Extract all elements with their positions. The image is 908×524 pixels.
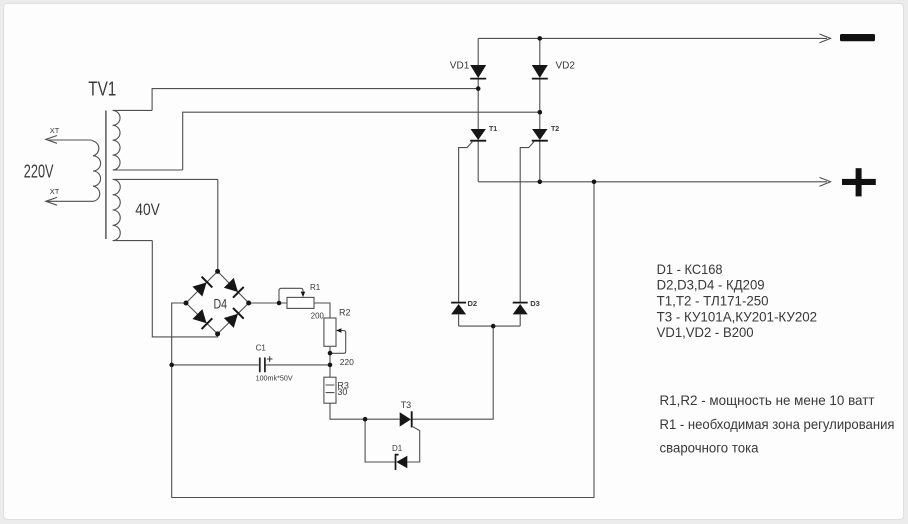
- resistor R3 body: [324, 377, 336, 403]
- resistor R1 body: [287, 297, 314, 308]
- bridge rectifier D4 outline: [186, 271, 249, 334]
- primary winding arrow bottom: [46, 197, 57, 205]
- wire minus rail: [478, 37, 827, 39]
- plus terminal symbol: [842, 168, 876, 196]
- diode VD2: [532, 65, 548, 79]
- svg-text:Т1,Т2 - ТЛ171-250: Т1,Т2 - ТЛ171-250: [657, 293, 769, 309]
- svg-text:100mk*50V: 100mk*50V: [256, 373, 294, 382]
- minus output arrowhead: [820, 34, 831, 43]
- svg-text:C1: C1: [256, 344, 267, 353]
- wire C1 rail left: [172, 364, 259, 366]
- svg-text:сварочного тока: сварочного тока: [660, 440, 759, 456]
- svg-text:XT: XT: [50, 187, 60, 196]
- wire bridge right to R1: [249, 302, 287, 304]
- resistor R2 wiper arrow: [330, 331, 346, 354]
- thyristor T2: [532, 129, 548, 141]
- svg-text:Т3 - КУ101А,КУ201-КУ202: Т3 - КУ101А,КУ201-КУ202: [657, 308, 818, 324]
- svg-text:R2: R2: [339, 308, 351, 318]
- wire T3 cathode to D2 D3 junction: [412, 326, 494, 419]
- diode D2: [451, 303, 466, 315]
- wire T2 gate to D3: [520, 142, 534, 303]
- svg-text:T1: T1: [489, 126, 497, 133]
- plus output arrowhead: [820, 177, 831, 186]
- svg-text:200: 200: [311, 312, 325, 321]
- wire D3 to junction: [519, 315, 521, 327]
- diode VD1: [470, 65, 486, 79]
- transformer secondary winding 1: [113, 110, 183, 170]
- capacitor C1 plus mark: [267, 356, 273, 362]
- svg-text:D2: D2: [468, 299, 478, 308]
- zener diode D1: [396, 455, 408, 470]
- svg-text:VD1: VD1: [450, 60, 470, 71]
- svg-text:40V: 40V: [135, 200, 160, 219]
- wire R2 to R3: [329, 346, 331, 377]
- minus terminal symbol: [840, 34, 875, 41]
- wire D1 right branch to T3 gate: [407, 430, 419, 462]
- svg-text:D1: D1: [392, 444, 403, 453]
- svg-text:R1: R1: [310, 283, 321, 292]
- svg-text:VD1,VD2 - В200: VD1,VD2 - В200: [657, 324, 754, 340]
- wire plus rail: [478, 181, 827, 183]
- resistor R1 wiper arrow: [279, 288, 303, 303]
- wire 40V bottom to bridge bottom: [152, 241, 217, 337]
- svg-text:T2: T2: [551, 126, 559, 133]
- svg-text:D1 - КС168: D1 - КС168: [657, 261, 723, 277]
- wire T1 gate to D2: [459, 142, 473, 303]
- diode D3: [513, 303, 528, 315]
- bridge diode bottom-right: [223, 308, 243, 328]
- wire D2 D3 bottom join: [459, 325, 521, 327]
- svg-text:D3: D3: [530, 299, 540, 308]
- wire C1 rail right: [266, 364, 330, 366]
- svg-text:D2,D3,D4 - КД209: D2,D3,D4 - КД209: [657, 277, 765, 293]
- svg-text:220V: 220V: [24, 161, 54, 182]
- capacitor C1: [260, 358, 265, 373]
- svg-text:220: 220: [340, 357, 354, 367]
- thyristor T1: [470, 129, 486, 141]
- svg-text:T3: T3: [401, 400, 412, 410]
- svg-text:TV1: TV1: [88, 77, 116, 100]
- wire secondary1 top to VD1 node: [152, 89, 478, 111]
- svg-text:R1 - необходимая зона регулиро: R1 - необходимая зона регулирования: [660, 416, 895, 432]
- bridge diode left-bottom: [192, 309, 212, 329]
- transformer secondary winding 2 40V: [113, 179, 218, 240]
- svg-text:R1,R2 - мощность не мене 10 ва: R1,R2 - мощность не мене 10 ватт: [660, 392, 876, 408]
- wire VD1 branch vertical: [477, 38, 479, 181]
- bridge diode top-right: [223, 277, 243, 297]
- wire R3 to T3 anode: [330, 403, 400, 419]
- wire VD2 branch vertical: [539, 38, 541, 181]
- svg-text:30: 30: [337, 387, 347, 397]
- svg-text:D4: D4: [214, 296, 228, 312]
- transformer TV1 core: [105, 111, 107, 240]
- primary winding arrow top: [46, 136, 57, 144]
- wire 40V top to bridge top: [217, 179, 219, 271]
- transformer primary winding 220V: [48, 140, 101, 201]
- resistor R2 body: [324, 318, 336, 346]
- svg-text:XT: XT: [50, 126, 60, 135]
- bridge diode left-top: [192, 277, 212, 297]
- svg-text:VD2: VD2: [556, 60, 576, 71]
- thyristor T3: [400, 411, 420, 430]
- wire D2 to junction: [458, 315, 460, 327]
- wire D1 left branch: [365, 419, 395, 462]
- wire right loop down to bottom rail and up left side: [172, 182, 594, 498]
- wire secondary1 bottom to VD2 node: [183, 112, 540, 170]
- wire R1 to R2: [314, 303, 330, 318]
